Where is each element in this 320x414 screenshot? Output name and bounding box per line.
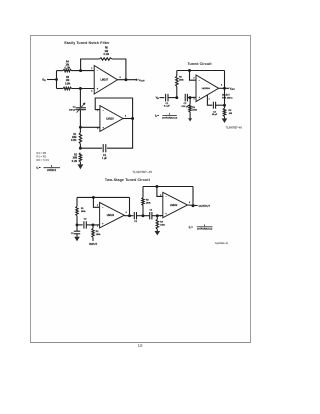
resistor R3 s2 labels xyxy=(146,200,151,205)
svg-text:R3: R3 xyxy=(229,110,233,112)
pin 2 minus A2 xyxy=(97,109,104,112)
capacitor C3 coupling xyxy=(134,212,136,219)
svg-text:10k: 10k xyxy=(66,80,71,82)
resistor R1 s1 xyxy=(76,197,78,225)
wire C1 to node A xyxy=(79,110,81,127)
op-amp A3 LM102 stage1 xyxy=(100,203,125,228)
svg-text:C2: C2 xyxy=(103,155,107,157)
svg-text:LM101A: LM101A xyxy=(202,87,211,90)
svg-text:160k: 160k xyxy=(96,234,101,236)
svg-text:160k: 160k xyxy=(160,225,165,227)
svg-text:R1: R1 xyxy=(81,208,85,210)
wire B to plus input s1 xyxy=(93,224,100,226)
svg-text:10 pF: 10 pF xyxy=(212,114,218,116)
node A junction xyxy=(79,126,82,129)
svg-text:2: 2 xyxy=(97,205,98,207)
svg-text:SELECT: SELECT xyxy=(222,95,231,97)
pin 6 A3 xyxy=(126,212,127,214)
wire rail stage2 xyxy=(143,186,193,188)
svg-text:2: 2 xyxy=(193,78,194,80)
svg-text:f₀ =: f₀ = xyxy=(189,226,193,229)
wire R2 to ground xyxy=(79,162,81,164)
svg-text:3: 3 xyxy=(160,216,161,218)
wire A2 feedback loop xyxy=(95,98,132,119)
wire C1 to ground s1 xyxy=(76,234,78,237)
node D junction xyxy=(156,214,159,217)
wire C to C4 xyxy=(143,215,150,217)
capacitor C2 labels xyxy=(102,155,107,160)
pin 2 minus U1 xyxy=(193,78,200,83)
formula f0 two-stage xyxy=(189,225,213,231)
capacitor C1 tuned xyxy=(166,94,168,102)
capacitor C2 tuned xyxy=(185,94,187,102)
wire R4 to ground xyxy=(156,229,158,231)
wire pin1 comp xyxy=(207,95,212,105)
svg-text:R1 = R2: R1 = R2 xyxy=(37,155,47,159)
wire rail down to output xyxy=(224,71,226,89)
node J1 junction xyxy=(175,96,178,99)
svg-text:3: 3 xyxy=(193,99,194,101)
wire bottom branch to non-inverting input xyxy=(72,88,95,90)
title: Tuned Circuit xyxy=(187,62,212,66)
svg-text:0.1%: 0.1% xyxy=(65,68,70,70)
resistor R3 tuned xyxy=(223,105,226,116)
wire R3 to ground xyxy=(224,117,226,119)
svg-text:10M: 10M xyxy=(73,158,78,160)
wire input to splitter xyxy=(47,79,57,81)
node A1 output junction xyxy=(124,78,127,81)
svg-text:6: 6 xyxy=(189,202,190,204)
node B s1 xyxy=(92,223,95,226)
title: Easily Tuned Notch Filter xyxy=(64,41,110,45)
svg-text:10M: 10M xyxy=(72,137,77,139)
node B junction xyxy=(79,146,82,150)
resistor R6 xyxy=(99,58,112,60)
page number 16 xyxy=(133,343,147,348)
wire A1 output xyxy=(118,79,137,81)
pin 6 A4 xyxy=(189,202,190,204)
svg-text:Tuned Circuit: Tuned Circuit xyxy=(187,62,212,66)
wire rail to minus stage1 xyxy=(93,197,99,207)
svg-text:R5: R5 xyxy=(66,77,70,79)
node VOUT2 xyxy=(230,87,235,90)
wire splitter vertical xyxy=(56,71,58,89)
svg-text:VIN: VIN xyxy=(156,97,160,100)
caption TL/H/7057-45 xyxy=(132,170,152,174)
svg-text:160k: 160k xyxy=(179,79,184,81)
note select xyxy=(222,95,233,100)
svg-text:LM110: LM110 xyxy=(106,117,114,120)
node A3 output junction xyxy=(128,214,131,217)
capacitor C1 labels xyxy=(69,107,76,112)
svg-text:f₀ =: f₀ = xyxy=(155,115,159,118)
node VIN2 input terminal xyxy=(156,97,160,100)
capacitor C3 comp xyxy=(213,102,215,109)
svg-text:0.1%: 0.1% xyxy=(72,161,77,163)
svg-text:TL/H/7057–46: TL/H/7057–46 xyxy=(226,127,242,130)
resistor R1 tuned xyxy=(189,98,192,112)
svg-text:FOR 100 kc: FOR 100 kc xyxy=(222,97,233,99)
capacitor C2 s1 xyxy=(84,221,86,228)
resistor R1 labels xyxy=(71,134,77,142)
node A2 output junction xyxy=(131,117,134,120)
formula f0 circuit1 xyxy=(37,165,61,172)
svg-text:−: − xyxy=(102,207,104,209)
svg-text:2π√R1R2C1C2: 2π√R1R2C1C2 xyxy=(197,228,213,231)
svg-text:3: 3 xyxy=(97,128,98,130)
node rail junction stage2 xyxy=(155,185,158,188)
svg-text:160k: 160k xyxy=(146,203,151,205)
resistor R4 labels xyxy=(65,62,70,70)
pin 3 plus A2 xyxy=(97,126,104,130)
wire rail down stage2 xyxy=(192,187,194,206)
capacitor C3 coupling label xyxy=(134,221,138,223)
svg-text:2: 2 xyxy=(160,194,161,196)
node J2 junction xyxy=(189,96,192,99)
op-amp U1 LM101A xyxy=(196,75,219,102)
capacitor C2 tuned labels xyxy=(181,103,189,108)
capacitor C4 coupling label xyxy=(149,209,153,211)
ground C1 s1 xyxy=(74,237,80,241)
svg-text:f₀ =: f₀ = xyxy=(37,166,42,170)
wire C3 to junction xyxy=(216,104,225,106)
wire feedback riser xyxy=(81,59,100,71)
resistor R5 labels xyxy=(65,77,70,85)
svg-text:6: 6 xyxy=(125,116,126,118)
wire top branch left xyxy=(57,70,64,72)
svg-text:C3: C3 xyxy=(134,221,138,223)
svg-text:10k: 10k xyxy=(104,51,109,53)
node top branch junction xyxy=(79,69,82,72)
svg-text:INPUT: INPUT xyxy=(89,242,97,246)
svg-text:2: 2 xyxy=(91,68,92,70)
resistor R2 labels xyxy=(72,154,78,162)
wire input2 to C1 xyxy=(160,97,165,99)
resistor R2 xyxy=(79,153,82,162)
pin 3 plus A1 xyxy=(91,88,99,93)
pin 3 plus A4 xyxy=(160,213,167,217)
svg-text:10k: 10k xyxy=(65,65,70,67)
svg-text:R4: R4 xyxy=(66,62,70,64)
wire A4 output xyxy=(188,204,198,207)
node OUTPUT terminal xyxy=(199,204,211,208)
svg-text:0.1 μF: 0.1 μF xyxy=(164,106,171,108)
resistor R4 s2 labels xyxy=(160,222,165,227)
wire feedback to output xyxy=(112,59,126,80)
pin 6 U1 xyxy=(221,85,222,87)
svg-text:−: − xyxy=(97,69,99,72)
capacitor C1 s1 label xyxy=(71,233,75,235)
note R1 = R2 xyxy=(37,155,47,159)
svg-text:0.1%: 0.1% xyxy=(104,54,109,56)
resistor R2 s1 labels xyxy=(96,231,101,236)
wire J2 to plus input xyxy=(187,96,196,98)
op-amp A4 LM102 stage2 xyxy=(163,192,188,217)
node A s1 xyxy=(76,223,79,226)
capacitor C2 s1 label xyxy=(84,219,88,221)
svg-text:OUTPUT: OUTPUT xyxy=(199,204,211,208)
svg-text:LM107: LM107 xyxy=(101,79,109,82)
svg-text:Two-Stage Tuned Circuit: Two-Stage Tuned Circuit xyxy=(105,178,151,182)
svg-text:1: 1 xyxy=(209,98,210,100)
wire rail stage1 xyxy=(77,196,130,198)
ground R3 tuned xyxy=(222,118,228,123)
svg-text:C4: C4 xyxy=(149,209,153,211)
wire C1 to J1 xyxy=(168,97,177,99)
resistor R4 s2 xyxy=(156,216,159,230)
wire rail to minus stage2 xyxy=(157,187,163,197)
svg-text:−: − xyxy=(102,109,104,112)
wire rail down stage1 xyxy=(129,197,131,215)
svg-text:0.1%: 0.1% xyxy=(65,83,70,85)
svg-text:2πR1C1: 2πR1C1 xyxy=(47,169,57,172)
node bottom branch junction xyxy=(79,87,82,90)
resistor R2 tuned labels xyxy=(179,77,184,82)
wire bottom junction down to C1 xyxy=(79,89,81,108)
svg-text:VOUT: VOUT xyxy=(230,87,235,90)
svg-text:100 pF: 100 pF xyxy=(69,110,76,112)
svg-text:TL/H/7057–47: TL/H/7057–47 xyxy=(215,243,229,245)
pin 3 plus U1 xyxy=(193,97,200,101)
svg-text:R2: R2 xyxy=(96,231,100,233)
svg-text:3: 3 xyxy=(91,91,92,93)
capacitor C1 tuned labels xyxy=(164,103,171,108)
svg-text:LM102: LM102 xyxy=(170,204,178,207)
wire A3 output xyxy=(124,215,133,217)
caption TL/H/7057-46 xyxy=(226,127,242,130)
wire R1 to ground tuned xyxy=(189,112,191,118)
wire C2 to B s1 xyxy=(86,224,93,226)
title: Two-Stage Tuned Circuit xyxy=(105,178,151,182)
wire top branch to inverting input xyxy=(72,70,95,72)
svg-text:Easily Tuned Notch Filter: Easily Tuned Notch Filter xyxy=(64,41,110,45)
svg-text:R6 = ½ R1: R6 = ½ R1 xyxy=(37,158,50,162)
pin 1 U1 xyxy=(209,98,210,100)
resistor R4 xyxy=(63,69,72,72)
svg-text:VIN: VIN xyxy=(42,78,46,83)
ground circuit1 xyxy=(78,164,84,169)
capacitor C3 comp label xyxy=(212,111,218,116)
capacitor C1 s1 xyxy=(74,231,80,234)
svg-text:R4: R4 xyxy=(160,222,164,224)
svg-text:100: 100 xyxy=(229,113,233,115)
node U1 output junction xyxy=(223,87,226,90)
wire node B to C2 xyxy=(80,147,102,149)
svg-text:R2: R2 xyxy=(74,154,78,156)
op-amp A1 LM107 xyxy=(94,66,117,95)
op-amp A2 LM110 xyxy=(100,106,123,132)
wire A down to C1 s1 xyxy=(76,225,78,231)
svg-text:−: − xyxy=(199,80,201,82)
wire output down xyxy=(224,88,226,105)
node rail junction tuned xyxy=(188,69,191,72)
capacitor C4 coupling xyxy=(150,212,152,219)
svg-text:R1: R1 xyxy=(73,134,77,136)
svg-text:3: 3 xyxy=(97,225,98,227)
svg-text:160k: 160k xyxy=(81,211,86,213)
svg-text:6: 6 xyxy=(120,77,121,79)
wire A2 output xyxy=(123,118,133,120)
pin 6 A2 xyxy=(125,116,126,118)
pin 2 minus A1 xyxy=(91,68,99,72)
svg-text:1 μF: 1 μF xyxy=(102,158,107,160)
resistor R2 s1 xyxy=(92,225,94,238)
capacitor C2 xyxy=(103,144,106,152)
svg-text:LM102: LM102 xyxy=(107,214,115,217)
svg-text:R6: R6 xyxy=(105,48,109,50)
page frame border xyxy=(30,35,250,343)
svg-text:+: + xyxy=(97,88,99,91)
svg-text:C2: C2 xyxy=(84,219,88,221)
note R4 = R5 xyxy=(37,151,47,155)
pin 2 minus A3 xyxy=(97,205,104,209)
svg-text:C1: C1 xyxy=(73,107,77,109)
svg-text:2π√R1R2C1C2: 2π√R1R2C1C2 xyxy=(162,116,178,119)
wire D to plus input s2 xyxy=(157,215,163,217)
node rail junction stage1 xyxy=(92,196,95,199)
wire rail to minus input tuned xyxy=(190,71,197,81)
wire C4 to node D xyxy=(152,215,157,217)
resistor R2 tuned xyxy=(176,71,179,98)
ground R1 tuned xyxy=(188,118,192,121)
formula f0 tuned xyxy=(155,114,178,120)
svg-text:R3: R3 xyxy=(146,200,150,202)
wire rail tuned xyxy=(177,70,225,72)
wire node A to A2 plus input xyxy=(80,126,100,128)
pin 2 minus A4 xyxy=(160,194,167,198)
resistor R3 s2 xyxy=(142,187,144,216)
resistor R1 tuned labels xyxy=(192,107,197,112)
svg-text:0.1%: 0.1% xyxy=(71,140,76,142)
svg-text:R2: R2 xyxy=(179,77,183,79)
svg-text:6: 6 xyxy=(221,85,222,87)
pin 3 plus A3 xyxy=(97,224,104,228)
wire C3 to node C xyxy=(137,215,144,217)
resistor R1 s1 labels xyxy=(81,208,86,213)
svg-text:R1: R1 xyxy=(192,107,196,109)
wire C2 to output riser xyxy=(107,119,133,149)
wire A to C2 s1 xyxy=(77,224,83,226)
wire U1 output xyxy=(219,87,229,89)
svg-text:VOUT: VOUT xyxy=(138,78,145,83)
resistor R5 xyxy=(63,87,72,90)
wire R2 to INPUT xyxy=(92,237,94,241)
node INPUT terminal xyxy=(89,242,97,246)
resistor R1 xyxy=(79,127,82,148)
node A4 output junction xyxy=(192,204,195,207)
node VOUT terminal xyxy=(136,78,146,83)
svg-text:160k: 160k xyxy=(192,110,197,112)
caption TL/H/7057-47 xyxy=(215,243,229,245)
svg-text:R4 = R5: R4 = R5 xyxy=(37,151,47,155)
svg-text:6: 6 xyxy=(126,212,127,214)
resistor R3 tuned labels xyxy=(229,110,233,115)
node comp junction xyxy=(223,104,226,107)
node VIN input terminal xyxy=(42,78,58,83)
resistor R6 labels xyxy=(104,48,109,56)
svg-text:−: − xyxy=(165,196,167,198)
ground R4 s2 xyxy=(155,231,161,235)
note R6 = half R1 xyxy=(37,158,50,162)
svg-text:TL/H/7057–45: TL/H/7057–45 xyxy=(132,170,152,174)
wire bottom branch left xyxy=(57,88,64,90)
capacitor C1 variable xyxy=(76,103,86,113)
pin 6 A1 xyxy=(120,77,121,79)
node C junction xyxy=(142,214,145,217)
